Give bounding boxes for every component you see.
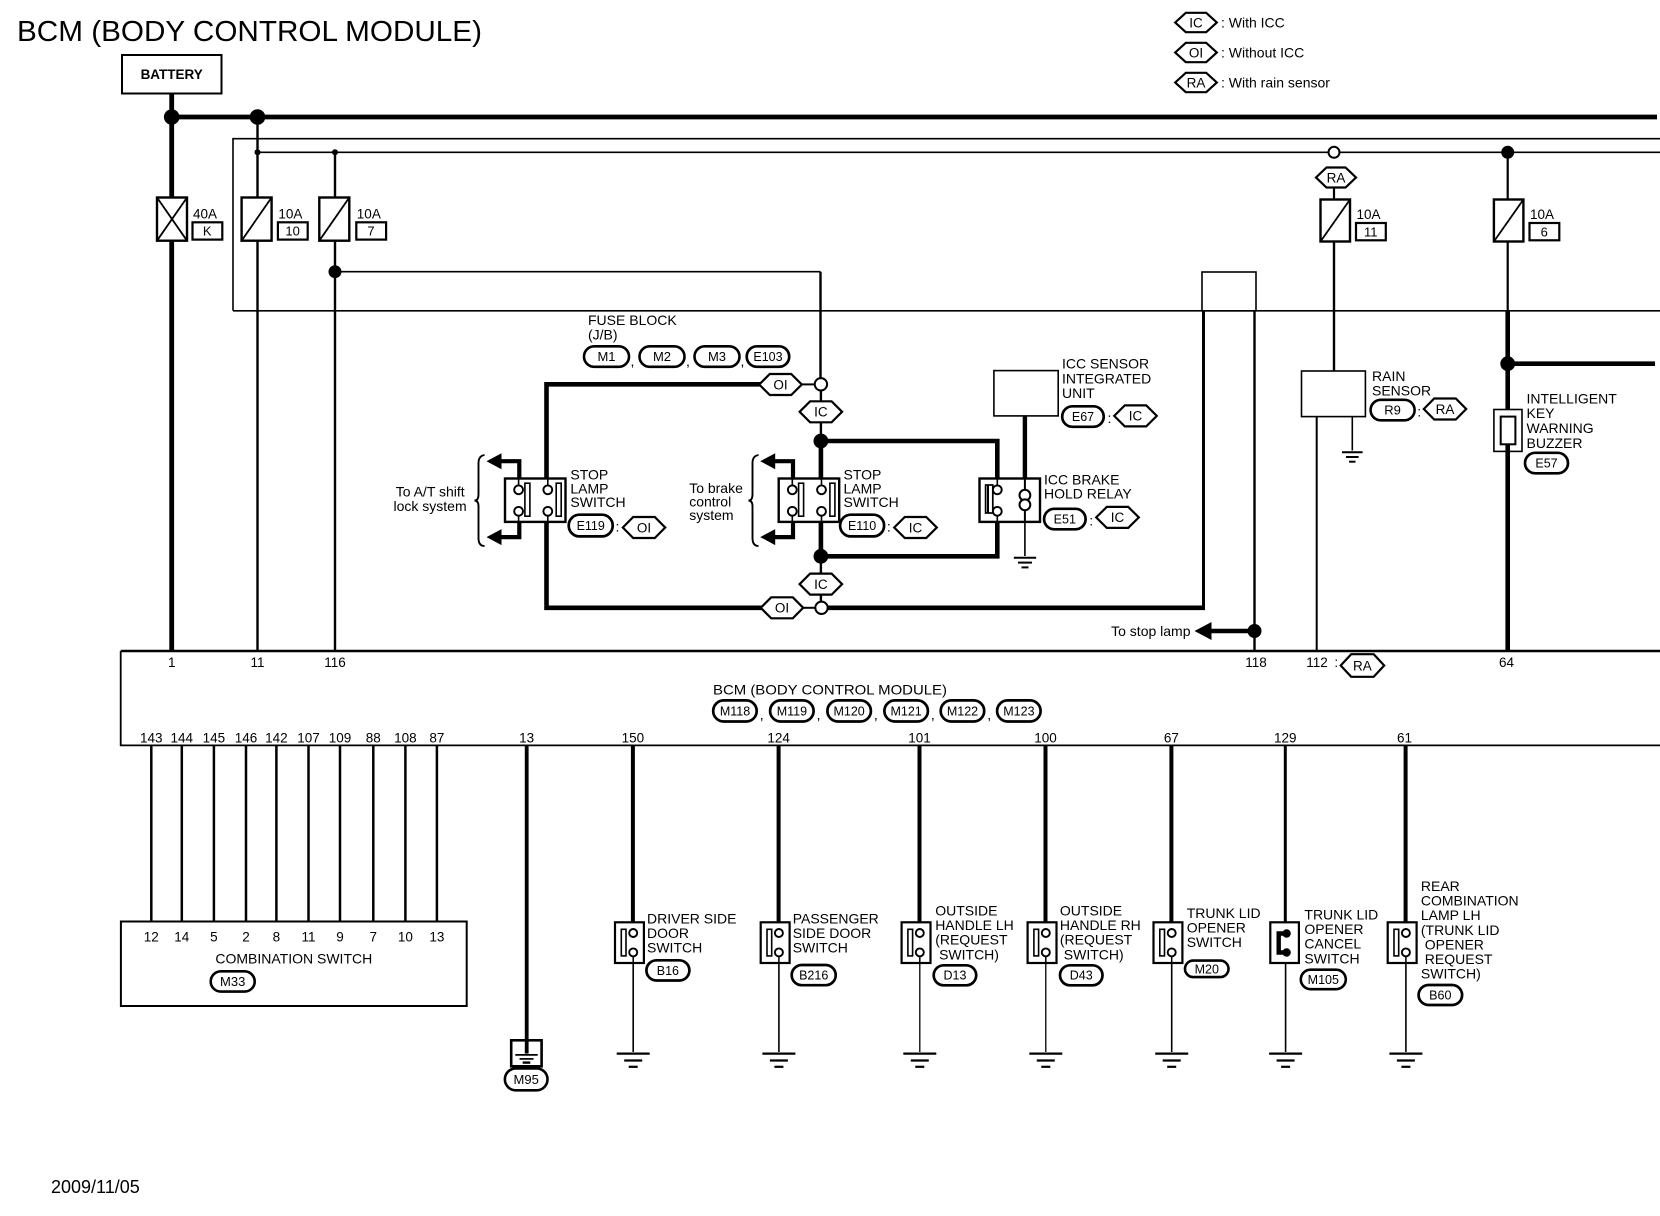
svg-text:9: 9 <box>336 930 344 945</box>
ground outside handle LH <box>903 1054 936 1067</box>
brace A/T shift <box>475 455 485 546</box>
option hexagon IC top <box>800 401 843 422</box>
svg-text:E119: E119 <box>577 519 605 533</box>
svg-text:145: 145 <box>203 731 226 746</box>
wire junction to ICC relay <box>821 441 997 479</box>
label stop lamp switch E119 <box>570 467 625 511</box>
svg-text:M3: M3 <box>708 349 726 364</box>
label 10A 7 <box>356 206 386 239</box>
trunk lid opener switch <box>1154 922 1183 963</box>
svg-text:IC: IC <box>814 405 828 420</box>
label ICC brake hold relay <box>1044 471 1132 501</box>
wire junction to ICC relay return <box>821 522 997 556</box>
wire trunk lid opener switch to ground <box>1171 963 1173 1052</box>
option hexagon IC E110 <box>894 517 937 538</box>
label 10A 11 <box>1356 207 1386 240</box>
svg-text:150: 150 <box>622 731 645 746</box>
svg-text:OI: OI <box>1189 45 1203 60</box>
svg-text:11: 11 <box>301 930 315 945</box>
svg-text:COMBINATION: COMBINATION <box>1421 893 1519 909</box>
svg-text:(TRUNK LID: (TRUNK LID <box>1421 922 1500 938</box>
svg-text:,: , <box>760 707 764 723</box>
label driver side door switch <box>647 910 736 955</box>
fuse 10A No.10 <box>242 198 272 241</box>
fuse 10A No.11 <box>1321 200 1351 242</box>
label rear combination lamp <box>1421 878 1519 982</box>
svg-text:107: 107 <box>297 731 320 746</box>
svg-text:,: , <box>987 707 991 723</box>
rear combination lamp trunk request switch <box>1388 922 1417 963</box>
connector oval D43 <box>1060 965 1103 985</box>
connector oval M123 <box>997 700 1041 721</box>
svg-text:lock system: lock system <box>394 498 467 514</box>
svg-text:M123: M123 <box>1003 704 1034 718</box>
svg-text:12: 12 <box>144 930 159 945</box>
svg-text:M118: M118 <box>720 704 750 718</box>
junction dot fuse 7 branch <box>329 265 342 278</box>
svg-text:system: system <box>689 507 733 523</box>
connector oval R9 <box>1371 400 1415 421</box>
svg-text:146: 146 <box>235 731 258 746</box>
svg-text:2: 2 <box>242 930 250 945</box>
svg-text:COMBINATION SWITCH: COMBINATION SWITCH <box>215 951 372 967</box>
svg-text:RA: RA <box>1187 75 1206 90</box>
svg-text:D43: D43 <box>1070 969 1093 983</box>
svg-text:BCM (BODY CONTROL MODULE): BCM (BODY CONTROL MODULE) <box>17 16 482 48</box>
connector oval D13 <box>934 965 977 985</box>
svg-text:142: 142 <box>265 731 288 746</box>
connector oval M119 <box>770 700 814 721</box>
svg-text:INTELLIGENT: INTELLIGENT <box>1527 390 1618 406</box>
wire ICC unit to relay coil <box>1023 416 1027 479</box>
svg-text:,: , <box>817 707 821 723</box>
wire junction to stop lamp switch E110 <box>819 441 824 479</box>
svg-text:UNIT: UNIT <box>1062 385 1095 401</box>
svg-text:IC: IC <box>1111 510 1125 525</box>
wire outside handle RH to ground <box>1045 963 1047 1052</box>
svg-text:(REQUEST: (REQUEST <box>1060 932 1133 948</box>
svg-text:BATTERY: BATTERY <box>141 67 203 82</box>
svg-text:OUTSIDE: OUTSIDE <box>1060 903 1122 919</box>
stop lamp switch E110 <box>779 479 840 522</box>
svg-text:SWITCH): SWITCH) <box>1060 946 1124 962</box>
wire RA hexagon to fuse 11 <box>1333 188 1335 200</box>
svg-text:118: 118 <box>1245 655 1267 670</box>
wire BCM to combination switch 1 <box>150 745 153 921</box>
svg-text:10A: 10A <box>357 206 381 221</box>
wire BCM to combination switch 5 <box>275 745 278 921</box>
svg-text:K: K <box>203 224 212 239</box>
wire fuse 7 feed <box>334 152 336 197</box>
svg-text:61: 61 <box>1397 731 1412 746</box>
svg-text:RA: RA <box>1436 402 1455 417</box>
wire BCM pin 129 to cancel switch <box>1284 745 1287 933</box>
svg-text:7: 7 <box>370 930 378 945</box>
svg-text:SWITCH): SWITCH) <box>935 946 999 962</box>
junction dot feed bus 1 <box>255 149 261 155</box>
label trunk lid opener cancel switch <box>1304 907 1378 967</box>
wire rear combination lamp to ground <box>1405 963 1407 1052</box>
ground passenger door switch <box>762 1054 795 1067</box>
arrows E119 to A/T shift lock <box>487 453 520 545</box>
svg-text:109: 109 <box>329 731 352 746</box>
junction dot stop lamp return <box>814 549 829 564</box>
connector oval M120 <box>827 700 871 721</box>
junction dot feed bus 2 <box>332 149 338 155</box>
svg-text:SWITCH): SWITCH) <box>1421 966 1481 982</box>
wire BCM pin 150 to driver door switch <box>631 745 635 933</box>
ICC sensor integrated unit <box>994 371 1058 416</box>
wire passenger door switch to ground <box>778 963 780 1052</box>
wire top loop left rail <box>547 384 762 478</box>
svg-text:143: 143 <box>140 731 163 746</box>
connector oval E119 <box>569 515 613 537</box>
fusible link 40A K <box>157 198 187 241</box>
svg-text:M122: M122 <box>947 704 978 718</box>
battery <box>122 55 222 94</box>
svg-text:116: 116 <box>324 655 346 670</box>
svg-text:10: 10 <box>285 224 299 239</box>
wire junction to IC hexagon bottom <box>820 556 822 574</box>
svg-text:To stop lamp: To stop lamp <box>1111 623 1191 639</box>
ground trunk lid opener switch <box>1155 1054 1188 1067</box>
fuse block pass-through connector <box>1202 272 1256 311</box>
brace brake control <box>749 455 759 546</box>
wire buzzer to BCM pin 64 <box>1505 444 1510 651</box>
svg-text:5: 5 <box>210 930 218 945</box>
junction dot to stop lamp <box>1248 624 1262 638</box>
connector oval M122 <box>941 700 985 721</box>
wire fuse 10 to BCM pin 11 <box>256 241 258 651</box>
svg-text:BUZZER: BUZZER <box>1527 435 1583 451</box>
ground ICC relay <box>1014 558 1036 568</box>
option hexagon IC E67 <box>1114 405 1157 426</box>
wire fuse 11 to rain sensor <box>1333 242 1335 372</box>
wire IC hexagon to junction <box>820 422 822 441</box>
wire driver door switch to ground <box>632 963 634 1052</box>
junction dot stop lamp feed <box>814 434 829 449</box>
option node rain sensor feed <box>1329 147 1340 158</box>
label outside handle LH <box>935 903 1014 963</box>
option hexagon OI E119 <box>623 517 665 538</box>
svg-text:: With ICC: : With ICC <box>1221 15 1285 31</box>
connector oval M20 <box>1185 961 1229 978</box>
svg-text:13: 13 <box>519 731 534 746</box>
svg-text:67: 67 <box>1164 731 1179 746</box>
svg-text:6: 6 <box>1541 224 1548 239</box>
svg-text:108: 108 <box>394 731 417 746</box>
connector oval E67 <box>1062 406 1104 427</box>
arrows E110 to brake control <box>760 453 793 545</box>
wire fuse 6 lower <box>1507 242 1509 311</box>
svg-text:WARNING: WARNING <box>1527 420 1594 436</box>
ground driver door switch <box>617 1054 650 1067</box>
svg-text:,: , <box>631 353 635 369</box>
svg-text:IC: IC <box>1129 409 1143 424</box>
svg-text:LAMP LH: LAMP LH <box>1421 907 1481 923</box>
wire down to OI node <box>819 272 821 379</box>
svg-text::: : <box>1334 655 1338 670</box>
svg-text:IC: IC <box>1189 15 1203 30</box>
wire node to IC hexagon top <box>820 391 822 402</box>
wire BCM to combination switch 4 <box>245 745 248 921</box>
connector oval B60 <box>1419 985 1463 1005</box>
trunk lid opener cancel switch <box>1270 922 1299 963</box>
driver side door switch <box>615 922 644 963</box>
connector oval E103 <box>747 346 790 367</box>
svg-text:13: 13 <box>429 930 444 945</box>
wire fuse 7 to BCM pin 116 <box>334 241 336 651</box>
svg-text:10: 10 <box>398 930 413 945</box>
option hexagon RA pin 112 <box>1341 654 1385 677</box>
svg-text:E57: E57 <box>1535 457 1557 471</box>
option hexagon IC bottom <box>800 574 843 595</box>
svg-text:B60: B60 <box>1429 988 1451 1002</box>
connector oval M3 <box>695 346 740 367</box>
wire BCM pin 124 to passenger door switch <box>777 745 781 933</box>
svg-text:HOLD RELAY: HOLD RELAY <box>1044 485 1132 501</box>
junction dot fuse 6 feed <box>1501 146 1514 159</box>
svg-text:10A: 10A <box>1357 207 1381 222</box>
junction dot buzzer branch <box>1500 356 1515 371</box>
label intelligent key warning buzzer <box>1527 390 1618 451</box>
wire BCM to combination switch 6 <box>307 745 310 921</box>
svg-text:M95: M95 <box>514 1072 539 1087</box>
wire branch to stop lamp circuit <box>335 271 821 273</box>
svg-text:,: , <box>741 353 745 369</box>
wire outside handle LH to ground <box>919 963 921 1052</box>
junction dot battery bus left <box>164 109 180 125</box>
svg-text:144: 144 <box>171 731 194 746</box>
wire to stop lamp arrow <box>1195 622 1255 640</box>
label To brake control system <box>689 480 743 523</box>
rain sensor <box>1302 371 1366 417</box>
connector node bottom <box>815 602 827 614</box>
wire BCM to combination switch 9 <box>404 745 407 921</box>
svg-text:1: 1 <box>168 655 176 670</box>
wire fuse 40A to BCM pin 1 <box>169 241 174 651</box>
svg-text:7: 7 <box>367 224 374 239</box>
svg-text:OUTSIDE: OUTSIDE <box>935 903 997 919</box>
svg-text:2009/11/05: 2009/11/05 <box>51 1177 140 1197</box>
ground rain sensor <box>1342 452 1363 461</box>
wire BCM to combination switch 2 <box>181 745 184 921</box>
wire bottom loop left rail <box>547 606 762 608</box>
svg-text::: : <box>1417 404 1421 420</box>
svg-text:BCM (BODY CONTROL MODULE): BCM (BODY CONTROL MODULE) <box>713 682 947 698</box>
svg-text:M1: M1 <box>597 349 615 364</box>
ground cancel switch <box>1269 1054 1302 1067</box>
svg-text:ICC SENSOR: ICC SENSOR <box>1062 356 1149 372</box>
svg-text:OPENER: OPENER <box>1304 921 1363 937</box>
svg-text:: With rain sensor: : With rain sensor <box>1221 75 1330 91</box>
wire BCM to combination switch 10 <box>436 745 439 921</box>
combination switch box <box>121 922 467 1007</box>
connector oval B16 <box>646 960 689 980</box>
svg-text:14: 14 <box>174 930 190 945</box>
wire J/B right to BCM pin 118 <box>1253 311 1255 651</box>
svg-text:100: 100 <box>1034 731 1057 746</box>
wire BCM pin 13 to body ground <box>525 745 529 1040</box>
svg-text:M120: M120 <box>833 704 864 718</box>
svg-text:DRIVER SIDE: DRIVER SIDE <box>647 910 736 926</box>
svg-text:129: 129 <box>1274 731 1297 746</box>
svg-text:HANDLE LH: HANDLE LH <box>935 917 1014 933</box>
svg-text:8: 8 <box>273 930 281 945</box>
svg-text::: : <box>616 519 620 535</box>
svg-text:M2: M2 <box>653 349 671 364</box>
option hexagon OI bottom <box>761 597 803 618</box>
svg-text:88: 88 <box>366 731 381 746</box>
wire BCM pin 61 to rear combination lamp <box>1404 745 1408 933</box>
label ICC sensor integrated unit <box>1062 356 1151 402</box>
wire BCM pin 100 to outside handle RH <box>1044 745 1048 933</box>
svg-text:HANDLE RH: HANDLE RH <box>1060 917 1141 933</box>
outside handle RH request switch <box>1028 922 1057 963</box>
svg-text:OI: OI <box>775 601 789 616</box>
svg-text:E103: E103 <box>753 350 782 364</box>
svg-text:SWITCH: SWITCH <box>1187 934 1242 950</box>
label passenger side door switch <box>793 910 879 955</box>
svg-text:OPENER: OPENER <box>1187 920 1246 936</box>
body ground M95 <box>511 1040 541 1066</box>
wire OI hexagon stub bottom <box>803 607 816 609</box>
svg-text:RA: RA <box>1327 170 1346 185</box>
label trunk lid opener switch <box>1187 905 1261 950</box>
svg-text:10A: 10A <box>1530 207 1554 222</box>
passenger side door switch <box>761 922 790 963</box>
label 10A 10 <box>278 206 308 239</box>
svg-text:10A: 10A <box>278 206 302 221</box>
svg-text:PASSENGER: PASSENGER <box>793 910 879 926</box>
option hexagon RA R9 <box>1424 399 1466 420</box>
intelligent key warning buzzer <box>1494 410 1522 452</box>
connector oval M33 <box>211 971 255 991</box>
wire bottom loop to J/B <box>828 605 1205 610</box>
svg-text:M119: M119 <box>777 704 807 718</box>
svg-text:REQUEST: REQUEST <box>1421 951 1493 967</box>
svg-text:SWITCH: SWITCH <box>570 494 625 510</box>
legend hexagon RA <box>1175 73 1217 92</box>
svg-text::: : <box>887 519 891 535</box>
fuse 10A No.6 <box>1494 200 1524 242</box>
svg-text::: : <box>1108 410 1112 426</box>
svg-text:D13: D13 <box>944 969 967 983</box>
svg-text:SENSOR: SENSOR <box>1372 383 1431 399</box>
svg-text:OI: OI <box>637 520 651 535</box>
svg-text::: : <box>1089 513 1093 529</box>
svg-text:SWITCH: SWITCH <box>1304 950 1359 966</box>
svg-text:REAR: REAR <box>1421 878 1460 894</box>
svg-text:11: 11 <box>1364 224 1378 239</box>
wire BCM to combination switch 8 <box>372 745 375 921</box>
wire rain sensor to ground <box>1351 417 1353 451</box>
svg-text:M20: M20 <box>1195 962 1219 976</box>
wire rain sensor to BCM pin 112 <box>1316 417 1318 651</box>
wire buzzer branch right <box>1508 361 1655 366</box>
fuse block J/B outline <box>233 139 1660 311</box>
legend hexagon OI <box>1175 43 1217 62</box>
wire BCM pin 101 to outside handle LH <box>918 745 922 933</box>
svg-text:: Without ICC: : Without ICC <box>1221 45 1304 61</box>
svg-text:(J/B): (J/B) <box>588 327 618 343</box>
ground rear combination lamp <box>1389 1054 1422 1067</box>
option hexagon IC E51 <box>1096 507 1139 528</box>
wire fuse 10 feed <box>256 117 258 198</box>
connector oval E57 <box>1525 453 1568 474</box>
connector oval M121 <box>884 700 928 721</box>
svg-text:E110: E110 <box>848 519 876 533</box>
wire BCM to combination switch 3 <box>213 745 216 921</box>
fuse 10A No.7 <box>319 198 349 241</box>
svg-text:,: , <box>874 707 878 723</box>
svg-text:RA: RA <box>1353 658 1372 673</box>
svg-text:B216: B216 <box>799 969 828 983</box>
wire main battery bus <box>169 115 1657 120</box>
svg-text:,: , <box>686 353 690 369</box>
svg-text:M121: M121 <box>890 704 921 718</box>
wire J/B left to stop lamp loop <box>1200 311 1204 608</box>
option hexagon RA rain sensor fuse <box>1316 168 1356 188</box>
svg-text:40A: 40A <box>193 206 217 221</box>
svg-text:B16: B16 <box>657 964 679 978</box>
label stop lamp switch E110 <box>844 467 899 511</box>
svg-text:OI: OI <box>773 377 787 392</box>
svg-text:INTEGRATED: INTEGRATED <box>1062 370 1151 386</box>
svg-text:SWITCH: SWITCH <box>647 940 702 956</box>
svg-text:M33: M33 <box>220 974 245 989</box>
svg-text:DOOR: DOOR <box>647 925 689 941</box>
label 40A K <box>193 206 223 239</box>
junction dot battery bus fuse feed <box>250 109 266 125</box>
svg-text:M105: M105 <box>1308 973 1339 987</box>
svg-text:IC: IC <box>814 577 828 592</box>
svg-text:124: 124 <box>767 731 790 746</box>
connector oval E51 <box>1044 509 1086 530</box>
wire battery to fuse 40A <box>169 94 174 198</box>
svg-text:11: 11 <box>250 655 264 670</box>
connector oval B216 <box>792 965 836 985</box>
svg-text:SIDE DOOR: SIDE DOOR <box>793 925 872 941</box>
connector oval M105 <box>1301 970 1346 990</box>
svg-text:101: 101 <box>908 731 931 746</box>
label rain sensor <box>1372 368 1431 399</box>
connector node top <box>815 378 827 390</box>
svg-text:KEY: KEY <box>1527 405 1556 421</box>
outside handle LH request switch <box>902 922 931 963</box>
svg-text:OPENER: OPENER <box>1421 936 1484 952</box>
svg-text:SWITCH: SWITCH <box>793 940 848 956</box>
wire OI hexagon stub top <box>802 383 816 385</box>
ICC brake hold relay <box>980 479 1041 522</box>
label outside handle RH <box>1060 903 1141 963</box>
wire E119 down rail <box>544 522 549 606</box>
wire cancel switch to ground <box>1285 963 1287 1052</box>
connector oval M1 <box>584 346 629 367</box>
wire BCM pin 67 to trunk lid opener switch <box>1169 745 1173 933</box>
svg-text:IC: IC <box>909 520 923 535</box>
label 10A 6 <box>1530 207 1560 240</box>
wire to key warning buzzer <box>1505 311 1510 417</box>
option hexagon OI top <box>759 374 802 395</box>
svg-text:,: , <box>931 707 935 723</box>
stop lamp switch E119 <box>505 479 566 522</box>
svg-text:87: 87 <box>429 731 444 746</box>
wire E110 to junction <box>819 522 824 556</box>
wire relay to ground <box>1024 522 1026 556</box>
svg-text:E51: E51 <box>1054 513 1076 527</box>
ground outside handle RH <box>1029 1054 1062 1067</box>
